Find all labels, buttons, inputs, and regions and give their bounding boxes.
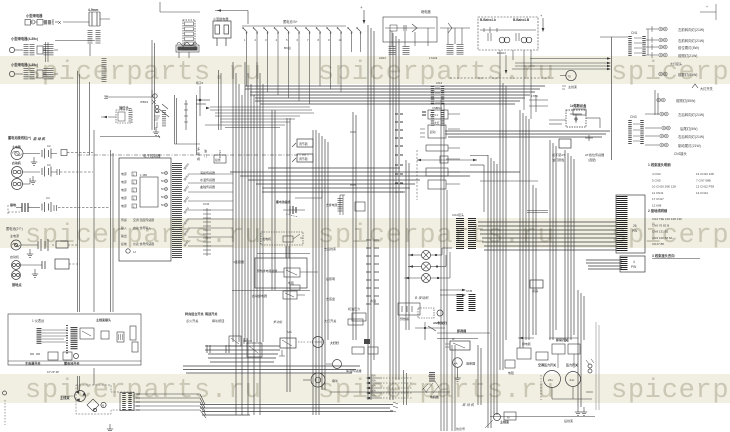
plug: head lamp 55W — [657, 98, 665, 102]
plug: rear tail lamp — [662, 126, 670, 130]
plug: brake lamp — [660, 143, 668, 147]
relay group box B — [429, 23, 470, 60]
svg-text:多: 多 — [197, 146, 200, 151]
component row 1 — [25, 19, 61, 25]
alternator symbol 2 — [11, 240, 21, 250]
ECU angled wire labels — [183, 162, 191, 248]
svg-text:曲轴传感器: 曲轴传感器 — [200, 184, 215, 189]
instrument panel frame — [8, 314, 141, 365]
small stacked circles right — [586, 359, 594, 373]
svg-text:B 发动机: B 发动机 — [415, 296, 429, 300]
wire: CN3 to plugs — [645, 114, 661, 145]
wire: verticals x174-176 — [175, 95, 201, 144]
label: battery 2 — [6, 226, 23, 238]
svg-text:30A: 30A — [371, 389, 376, 393]
wire bus: top-center horizontals y86-104 — [245, 86, 545, 104]
svg-text:C4: C4 — [46, 196, 50, 200]
svg-text:B6白: B6白 — [284, 45, 291, 50]
wire: vertical x186 with ticks — [184, 100, 188, 130]
wire bundle: left-center verticals — [233, 62, 263, 415]
svg-text:小型继电器(4-89c): 小型继电器(4-89c) — [10, 36, 38, 41]
wire: bottom line y416 — [490, 416, 595, 418]
svg-text:电阻: 电阻 — [508, 370, 514, 375]
connector CN3 — [630, 115, 642, 144]
svg-text:13 CN13 128: 13 CN13 128 — [696, 172, 714, 176]
capacitor marks bottom-center — [207, 345, 229, 353]
wire: corner y198 — [295, 190, 322, 198]
svg-text:CN2: CN2 — [203, 202, 209, 206]
wire: horizontal y136 — [100, 135, 160, 138]
svg-text:电源: 电源 — [121, 187, 127, 192]
crossed lamp 1 — [408, 248, 452, 260]
dark component at band edge — [428, 372, 432, 382]
arrow stubs below lamps — [440, 289, 466, 297]
battery 2 row — [21, 239, 78, 257]
svg-text:17 CN17: 17 CN17 — [652, 197, 664, 201]
svg-text:2 接地线明细: 2 接地线明细 — [648, 208, 668, 213]
svg-text:去继电器: 去继电器 — [326, 203, 337, 207]
diode box — [426, 145, 448, 151]
compressor circle 2 — [566, 372, 581, 387]
svg-text:AT挡位传感器: AT挡位传感器 — [585, 152, 604, 157]
svg-text:传感: 传感 — [121, 217, 127, 222]
battery relay marks — [283, 206, 305, 217]
bottom-center small boxes — [352, 347, 378, 354]
crossed lamp 2 — [408, 255, 446, 271]
svg-text:spicerparts.ru: spicerparts.ru — [25, 58, 262, 88]
svg-text:4 CN4: 4 CN4 — [652, 172, 661, 176]
lamp circle bottom-center — [279, 330, 370, 356]
connector CN2 tick column — [203, 202, 211, 256]
svg-text:制动尾灯(21W): 制动尾灯(21W) — [678, 143, 701, 148]
svg-text:PIN: PIN — [631, 265, 637, 269]
svg-text:1P 2P 3P: 1P 2P 3P — [47, 370, 59, 374]
AC cluster arrow — [518, 337, 534, 346]
bottom machine cluster — [485, 412, 516, 428]
svg-text:11 CN11: 11 CN11 — [652, 191, 664, 195]
svg-text:大灯接头: 大灯接头 — [670, 61, 682, 66]
plug: left rear turn lamp — [660, 112, 668, 116]
svg-text:CN3接头: CN3接头 — [674, 151, 688, 156]
svg-text:spicerparts.ru: spicerparts.ru — [611, 376, 730, 406]
svg-text:30A: 30A — [371, 394, 376, 398]
svg-text:调节器: 调节器 — [299, 156, 308, 161]
svg-text:18202: 18202 — [218, 150, 222, 159]
svg-text:7 CN7 08B: 7 CN7 08B — [696, 178, 711, 182]
svg-text:主线束: 主线束 — [500, 419, 509, 424]
svg-text:去底盘: 去底盘 — [326, 296, 335, 301]
arrow line y160 — [417, 159, 477, 161]
wire: arrow lines to CN1 area — [512, 57, 611, 70]
dash corner bottom-left — [8, 205, 20, 215]
wire: pedal feeds — [549, 118, 600, 128]
svg-text:点火开关: 点火开关 — [186, 318, 198, 323]
svg-text:CN2接头: CN2接头 — [452, 212, 464, 217]
fuse pair right — [347, 27, 361, 52]
plug: right front turn lamp — [659, 38, 667, 42]
wire bundle: mid verticals x272-290 — [272, 110, 290, 392]
label: AT sensor — [585, 152, 604, 162]
svg-text:蓄电池(2个): 蓄电池(2个) — [6, 226, 23, 231]
svg-text:178A: 178A — [531, 94, 538, 98]
svg-text:后线束: 后线束 — [564, 418, 573, 423]
svg-text:CN8: CN8 — [432, 106, 438, 110]
svg-text:CN8 131 B2: CN8 131 B2 — [652, 230, 669, 234]
svg-text:3 线束接头去向: 3 线束接头去向 — [652, 253, 675, 258]
connector cluster row2 — [9, 42, 58, 62]
svg-text:+: + — [706, 5, 708, 9]
svg-text:5A1: 5A1 — [287, 330, 292, 334]
svg-text:spicerparts.ru: spicerparts.ru — [318, 221, 555, 251]
svg-text:蓄电池开关: 蓄电池开关 — [64, 361, 80, 366]
wire bus: upper junction horizontals — [205, 107, 314, 128]
svg-text:12 A08: 12 A08 — [652, 204, 662, 208]
fuse row rail — [242, 25, 346, 27]
svg-text:75: 75 — [568, 75, 572, 79]
wiper motor circle — [326, 360, 342, 369]
ECU pin strip — [172, 163, 182, 259]
wire: verticals x218-221 — [219, 70, 222, 130]
svg-text:后尾灯(5W): 后尾灯(5W) — [680, 126, 698, 131]
svg-text:右后转向灯(21W): 右后转向灯(21W) — [678, 134, 704, 139]
fuse stack box — [183, 20, 195, 50]
plug: right rear turn lamp — [660, 134, 668, 138]
label: accelerator pedal — [552, 152, 566, 162]
svg-text:24v: 24v — [548, 378, 553, 382]
svg-text:接地: 接地 — [121, 241, 127, 246]
label: harness small — [562, 84, 577, 89]
svg-text:2A04: 2A04 — [379, 56, 386, 60]
svg-text:WB19: WB19 — [140, 100, 149, 104]
bus end ticks — [390, 402, 398, 412]
svg-text:车速传感器: 车速传感器 — [346, 368, 361, 373]
svg-text:多功能: 多功能 — [273, 320, 283, 324]
svg-text:喇叭: 喇叭 — [332, 378, 338, 383]
wire: y392 horizontal — [330, 391, 450, 393]
svg-text:前雾灯(55W): 前雾灯(55W) — [678, 72, 697, 77]
svg-text:CN4 73E 126 128 130: CN4 73E 126 128 130 — [652, 217, 682, 221]
legend title 3 — [652, 253, 700, 259]
connector CN4 — [433, 81, 443, 105]
connector CN1 — [630, 31, 644, 56]
svg-text:24v: 24v — [570, 378, 575, 382]
connector hatch under transformer — [90, 30, 98, 56]
junction cluster 178A — [529, 94, 548, 112]
svg-text:17A04: 17A04 — [429, 56, 438, 60]
legend list block 1 — [652, 172, 714, 208]
connector CN6 — [433, 106, 443, 126]
svg-text:空调压力开关: 空调压力开关 — [538, 362, 556, 367]
connector strip right column — [104, 58, 108, 99]
wire bundle: verticals x596-599 lower right — [596, 322, 599, 410]
switch cluster S3 — [229, 336, 252, 346]
svg-text:CN4: CN4 — [436, 81, 442, 85]
relay K4 — [445, 341, 470, 350]
svg-text:30A: 30A — [371, 379, 376, 383]
svg-text:仪表 信号传感器: 仪表 信号传感器 — [133, 241, 154, 246]
svg-text:+: + — [360, 5, 363, 10]
svg-text:前照灯(55W): 前照灯(55W) — [676, 98, 695, 103]
svg-text:输出: 输出 — [121, 233, 127, 238]
generator junction box — [261, 232, 303, 245]
wire: vertical x89.5 — [89, 82, 91, 155]
wire: fuse drops to bus — [247, 44, 342, 104]
plug: front head lamp — [659, 53, 667, 57]
fuse row FU1-FU10 — [242, 27, 342, 44]
svg-text:发电机: 发电机 — [262, 236, 272, 241]
battery row 1 components — [23, 144, 93, 165]
starter motor symbols 2 — [12, 261, 21, 280]
relay group box A — [379, 17, 437, 60]
svg-text:输入: 输入 — [121, 225, 127, 230]
wire: preheat bus y254 — [257, 246, 310, 258]
svg-text:CN5: CN5 — [466, 289, 472, 293]
preheat relay box — [255, 258, 318, 290]
svg-text:B.Baho4.b: B.Baho4.b — [480, 18, 496, 22]
wire: verticals into motor cluster — [78, 368, 95, 390]
wire bundle: verticals x406-409 — [406, 160, 409, 330]
regulator box 1 — [292, 139, 313, 147]
wire bundle: center-right verticals x488-536 — [488, 80, 536, 428]
svg-text:电源: 电源 — [121, 203, 127, 208]
compressor circle 1 — [544, 371, 561, 388]
starter relay box — [420, 121, 446, 138]
svg-text:启动 信号输入: 启动 信号输入 — [133, 225, 151, 230]
motor enclosure — [76, 385, 134, 414]
switch marks cluster left-mid — [153, 94, 169, 128]
svg-text:机油压力: 机油压力 — [348, 306, 360, 311]
svg-text:接线: 接线 — [215, 158, 221, 162]
svg-text:B.Baho4.B: B.Baho4.B — [513, 18, 530, 22]
wire: vertical pair x403-406 bottom — [404, 370, 407, 405]
arrow rows center-left — [366, 374, 412, 400]
watermark band 2 — [0, 218, 730, 248]
oil gauge box — [101, 105, 132, 123]
compressor drop wires — [552, 387, 593, 400]
wire: double line y211 — [527, 211, 548, 213]
svg-text:电源: 电源 — [121, 171, 127, 176]
svg-text:如不装AT:: 如不装AT: — [552, 152, 566, 157]
wire: arrow rail top — [160, 2, 248, 24]
frame dashed vertical — [66, 325, 68, 355]
svg-text:后照明: 后照明 — [326, 276, 335, 281]
flasher relay — [176, 43, 199, 59]
wire bus: mid-right horizontals y131-137 — [445, 131, 610, 137]
horn symbol — [303, 373, 338, 387]
turn switch box — [247, 343, 262, 357]
left edge small circle — [3, 391, 7, 425]
svg-text:左后转向灯(21W): 左后转向灯(21W) — [678, 112, 704, 117]
wire bundle: verticals x441-453 — [441, 100, 455, 431]
brake light junction — [415, 322, 490, 340]
svg-text:油: 油 — [204, 148, 207, 153]
pedal small relay — [559, 135, 593, 148]
svg-text:小型继电器: 小型继电器 — [25, 13, 43, 18]
label: battery terminals — [8, 135, 46, 141]
svg-text:14 CN14: 14 CN14 — [696, 191, 708, 195]
connector 4 PIN — [620, 256, 645, 272]
wire y338 with M — [437, 337, 478, 341]
bracket lines x340 — [340, 195, 345, 215]
sensor marks cluster WB19 — [140, 100, 164, 135]
labels bottom switch cluster — [185, 311, 283, 324]
svg-text:大灯开关: 大灯开关 — [700, 86, 714, 91]
wire: CN1 to plugs — [646, 26, 658, 58]
svg-text:喇叭按钮: 喇叭按钮 — [212, 318, 224, 323]
wire: corner leads into x488 bundle — [470, 156, 488, 213]
ignition switch circle 75 — [560, 70, 576, 80]
tick marks after connector — [136, 394, 140, 410]
plug stub rows left of center — [366, 240, 379, 304]
svg-text:压力开关: 压力开关 — [566, 362, 578, 367]
wire bus: into 26-pin connector — [478, 222, 616, 250]
grounds bottom right — [575, 407, 587, 415]
svg-text:CN6 76 82 B: CN6 76 82 B — [652, 223, 669, 227]
label column: sensors — [197, 146, 207, 161]
wire end markers column x395 — [395, 114, 403, 192]
svg-text:主线束: 主线束 — [568, 84, 577, 89]
svg-text:发 动 机: 发 动 机 — [462, 403, 475, 407]
connector cluster row3 — [9, 68, 58, 80]
svg-text:雨刮开关: 雨刮开关 — [205, 311, 218, 316]
fan box — [530, 280, 543, 293]
wire: top-right vertical x611 — [611, 37, 613, 160]
svg-text:大灯: 大灯 — [434, 121, 440, 125]
connector CN2 harness strips — [452, 212, 472, 250]
wire: verticals x110-113 — [111, 150, 114, 312]
sensor label rows — [200, 170, 215, 189]
svg-text:水温传感器: 水温传感器 — [200, 177, 215, 182]
frame bottom row components — [30, 352, 79, 360]
svg-text:主电源开关: 主电源开关 — [25, 361, 41, 366]
svg-text:去后线束: 去后线束 — [324, 246, 336, 251]
svg-text:海拔传感器: 海拔传感器 — [200, 170, 215, 175]
fuse box 1 rect — [573, 90, 658, 115]
svg-text:空调 温度传感器: 空调 温度传感器 — [133, 217, 154, 222]
crossed lamp 3 — [404, 252, 450, 283]
svg-text:前位置灯(5W): 前位置灯(5W) — [678, 45, 699, 50]
svg-text:门: 门 — [204, 153, 207, 158]
power + symbol — [360, 5, 365, 24]
svg-text:大灯开关: 大灯开关 — [324, 318, 336, 323]
svg-text:CN1: CN1 — [631, 31, 638, 35]
svg-text:启动继电器: 启动继电器 — [252, 293, 267, 298]
vertical dash x417 — [416, 150, 418, 200]
ECU lower text rows — [121, 217, 154, 254]
svg-text:主线束: 主线束 — [60, 395, 70, 400]
svg-text:B2A04: B2A04 — [497, 51, 506, 55]
svg-text:spicerparts.ru: spicerparts.ru — [318, 376, 555, 406]
starter motor M1 — [75, 391, 86, 402]
junction cluster x200 — [196, 81, 210, 116]
frame box B — [101, 331, 109, 339]
wire: verticals x478-481 — [478, 345, 481, 405]
svg-text:主电源: 主电源 — [10, 233, 19, 238]
wire: 4-pin feed lines — [586, 260, 622, 269]
svg-text:M: M — [102, 404, 104, 408]
battery relay box — [422, 106, 448, 119]
oil pressure sensor — [348, 306, 366, 321]
dashed vertical x541 — [540, 375, 542, 400]
starter terminals row2 — [12, 167, 23, 190]
svg-text:1 线束接头明细: 1 线束接头明细 — [648, 162, 671, 167]
svg-text:CN3: CN3 — [630, 115, 637, 119]
svg-text:风扇: 风扇 — [532, 288, 538, 293]
regulator box 2 — [292, 154, 313, 162]
wire: horizontal y40 — [55, 40, 95, 42]
wire: left long vertical pair — [78, 71, 80, 312]
svg-text:左前转向灯(21W): 左前转向灯(21W) — [678, 27, 704, 32]
svg-text:水温: 水温 — [370, 298, 376, 303]
scribble marks — [422, 381, 440, 393]
svg-text:小型继电器: 小型继电器 — [213, 16, 228, 21]
AC cluster boxes — [505, 348, 548, 375]
wire: verticals x152-154 — [152, 40, 155, 130]
pedal box P1 — [566, 110, 586, 127]
ECU block U1 — [119, 153, 171, 261]
connector 26 PIN — [616, 195, 645, 253]
ECU inner box — [140, 173, 158, 207]
svg-text:小型继电器(4-89c): 小型继电器(4-89c) — [10, 62, 38, 67]
frame box C — [117, 332, 124, 342]
wire bundle: verticals x368-399 — [368, 25, 399, 400]
svg-text:路: 路 — [197, 151, 200, 156]
svg-text:30A: 30A — [371, 384, 376, 388]
svg-text:启 动 机: 启 动 机 — [32, 137, 46, 141]
frame dense strip — [71, 327, 78, 350]
component hatch x336 — [338, 198, 343, 212]
field winding diamond — [87, 399, 99, 412]
svg-text:4-9mm: 4-9mm — [88, 8, 98, 12]
svg-text:1 386: 1 386 — [140, 173, 147, 177]
generator terminal row1 — [11, 148, 23, 160]
wire: ECU stubs to bundle — [188, 174, 233, 246]
svg-text:接地: 接地 — [10, 202, 16, 207]
relay box K0 — [213, 16, 231, 46]
sensor cluster right — [418, 308, 443, 318]
small box x355 y202 — [355, 202, 365, 211]
wire: horizontal y181 — [480, 180, 538, 182]
svg-text:卸荷阀: 卸荷阀 — [457, 328, 466, 333]
wire: dash-dot boundary line — [78, 154, 310, 156]
connector CN5 strips — [460, 289, 472, 312]
svg-text:蓄电池接线柱(+): 蓄电池接线柱(+) — [8, 135, 31, 140]
wire: vertical x94 — [93, 130, 95, 312]
wire: stubs right of column — [446, 114, 460, 184]
svg-text:蓄电池接线: 蓄电池接线 — [276, 199, 291, 204]
frame right boxes — [130, 326, 138, 352]
starter relay cluster — [252, 291, 305, 299]
svg-text:阀: 阀 — [197, 156, 200, 161]
wire bus: bottom-center y346-373 — [183, 346, 360, 373]
svg-text:4连接器: 4连接器 — [233, 259, 244, 264]
mini box top of ECU — [214, 155, 226, 163]
unload switch boxes — [549, 338, 580, 368]
svg-text:C2: C2 — [47, 144, 51, 148]
svg-text:AM制动灯: AM制动灯 — [433, 320, 448, 325]
svg-text:蓄电池 B+: 蓄电池 B+ — [283, 19, 298, 24]
relay K3 bottom-center — [280, 338, 296, 348]
svg-text:电源: 电源 — [121, 179, 127, 184]
svg-text:1 仪表台: 1 仪表台 — [32, 318, 44, 323]
svg-text:电阻: 电阻 — [288, 280, 294, 285]
corner marks top-right — [700, 4, 716, 20]
ground row components — [16, 196, 110, 212]
svg-text:10 CN10 26E 128: 10 CN10 26E 128 — [652, 185, 676, 189]
wire bundle: right verticals x550-583 — [550, 140, 584, 407]
ECU left pin rows — [121, 171, 137, 208]
glow plug cluster — [398, 303, 420, 321]
